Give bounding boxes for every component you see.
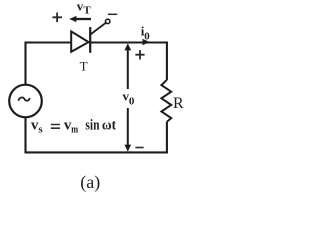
svg-text:(a): (a) xyxy=(80,172,100,193)
wire top-right segment (thyristor cathode to corner) xyxy=(90,41,168,43)
svg-text:ωt: ωt xyxy=(102,118,116,134)
vT arrow (pointing left) xyxy=(76,18,92,20)
thyristor T (triangle + cathode bar) xyxy=(71,31,88,51)
v0 arrow lower part (arrowhead down) xyxy=(127,108,129,146)
right wire upper segment xyxy=(166,42,168,81)
bottom wire xyxy=(25,151,168,153)
right wire lower segment xyxy=(166,122,168,154)
left wire lower segment xyxy=(24,117,26,153)
+ v0 polarity label xyxy=(135,50,144,59)
v0 arrow upper part (arrowhead up) xyxy=(127,50,129,90)
svg-text:sin: sin xyxy=(85,118,100,134)
resistor R zigzag xyxy=(161,80,171,122)
svg-text:m: m xyxy=(71,124,78,136)
thyristor gate terminal (line + circle) xyxy=(90,23,106,35)
svg-text:s: s xyxy=(38,124,43,136)
svg-text:0: 0 xyxy=(129,95,135,107)
svg-text:R: R xyxy=(173,95,184,112)
+ anode polarity label xyxy=(52,13,62,23)
minus v0 polarity label xyxy=(135,147,143,149)
minus cathode polarity label xyxy=(108,13,117,15)
i0 current direction arrowhead xyxy=(143,39,150,46)
AC source (circle + sine symbol) xyxy=(9,85,42,118)
svg-text:T: T xyxy=(80,59,88,74)
wire top-left segment (source to thyristor anode) xyxy=(26,41,73,43)
left wire upper segment xyxy=(24,42,26,85)
svg-text:T: T xyxy=(83,5,91,17)
